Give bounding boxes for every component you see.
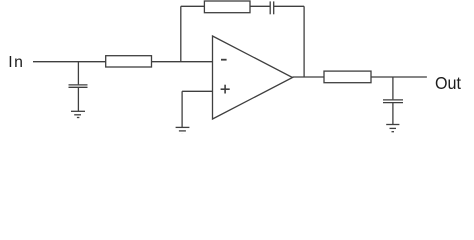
U1 non-inverting input mark (221, 85, 230, 94)
wire non-inverting input (182, 90, 212, 92)
resistor R1 (106, 56, 152, 67)
wire output (293, 76, 427, 78)
capacitor C3 (383, 100, 403, 103)
wire feedback top left (181, 5, 205, 7)
wire feedback left vertical (180, 6, 182, 61)
ground G2 (176, 127, 190, 134)
svg-text:In: In (8, 54, 24, 71)
wire C2 to corner (274, 5, 304, 7)
U1 inverting input mark (221, 59, 227, 61)
op-amp U1 (213, 36, 293, 119)
wire C1 bottom lead (77, 88, 79, 112)
ground G1 (71, 111, 85, 117)
wire input (33, 61, 213, 63)
resistor R3 (324, 71, 371, 83)
wire R2 to C2 (250, 5, 270, 7)
svg-text:Out: Out (435, 73, 461, 93)
capacitor C2 (270, 1, 274, 14)
ground G3 (386, 125, 399, 132)
capacitor C1 (69, 85, 88, 87)
wire C3 top lead (392, 77, 394, 99)
wire C1 top lead (77, 62, 79, 85)
wire C3 bottom lead (392, 103, 394, 125)
resistor R2 (204, 1, 250, 13)
wire feedback right vertical (303, 6, 305, 77)
wire non-inverting to ground (181, 91, 183, 127)
